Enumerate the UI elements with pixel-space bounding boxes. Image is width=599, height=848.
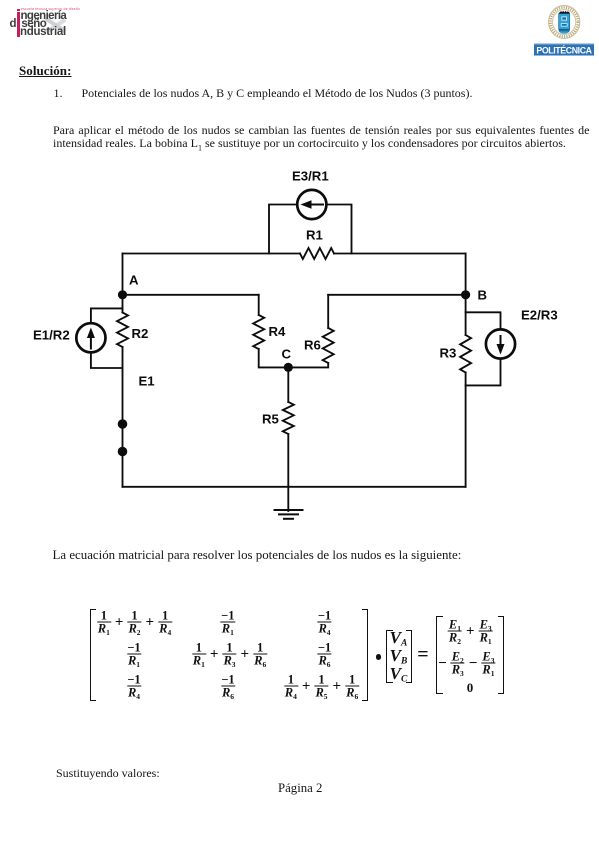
- label B: [478, 288, 488, 303]
- label R4: [269, 324, 287, 339]
- wire E2/R3 loop bottom connector: [466, 359, 501, 386]
- wire left vertical top (A to top rail): [122, 254, 124, 313]
- wire right vertical bottom: [465, 373, 467, 487]
- label R3: [440, 346, 457, 361]
- node B: [461, 290, 470, 299]
- node C: [284, 363, 293, 372]
- resistor R4: [253, 315, 264, 349]
- label E1/R2: [33, 328, 70, 343]
- label E1: [139, 374, 155, 389]
- wire E2/R3 loop top connector: [466, 312, 501, 329]
- wire E1/R2 loop bottom connector: [91, 352, 123, 368]
- resistor R6: [323, 328, 334, 363]
- wire E3 loop right branch: [326, 205, 351, 254]
- numbered item: [54, 86, 473, 101]
- resistor R1: [300, 248, 334, 259]
- wire R6 branch to node B: [328, 294, 465, 296]
- ground: [275, 510, 303, 519]
- junction dot 2 on left wire: [118, 447, 128, 457]
- wire R5 to ground: [287, 434, 289, 511]
- label A: [129, 273, 139, 288]
- wire R4 branch lower to node C: [259, 349, 289, 367]
- resistor R2: [117, 313, 128, 348]
- current source E2/R3: [486, 329, 515, 358]
- wire E1/R2 loop top connector: [91, 308, 123, 323]
- label R1: [306, 228, 323, 243]
- wire R4 branch upper: [258, 295, 260, 315]
- wire R6 branch lower to node C: [288, 363, 328, 367]
- wire R6 branch upper: [327, 295, 329, 328]
- label R6: [304, 338, 321, 353]
- current source E1/R2: [76, 323, 105, 352]
- resistor R5: [283, 402, 294, 434]
- wire node C to R5: [287, 367, 289, 402]
- wire bottom rail: [123, 486, 466, 488]
- paragraph: [53, 124, 590, 154]
- wire node A to R4 branch: [123, 294, 259, 296]
- label E3/R1: [292, 169, 329, 184]
- node A: [118, 290, 127, 299]
- wire left vertical bottom: [122, 347, 124, 487]
- wire top rail left of R1: [123, 253, 301, 255]
- resistor R3: [460, 335, 471, 373]
- label E2/R3: [521, 308, 558, 323]
- wire top rail right of R1: [334, 253, 466, 255]
- junction dot 1 on left wire: [118, 419, 128, 429]
- label C: [282, 347, 292, 362]
- label R2: [132, 326, 149, 341]
- wire E3 loop left branch: [269, 205, 297, 254]
- wire right vertical top: [465, 254, 467, 336]
- label R5: [262, 412, 279, 427]
- current source E3/R1: [297, 190, 326, 219]
